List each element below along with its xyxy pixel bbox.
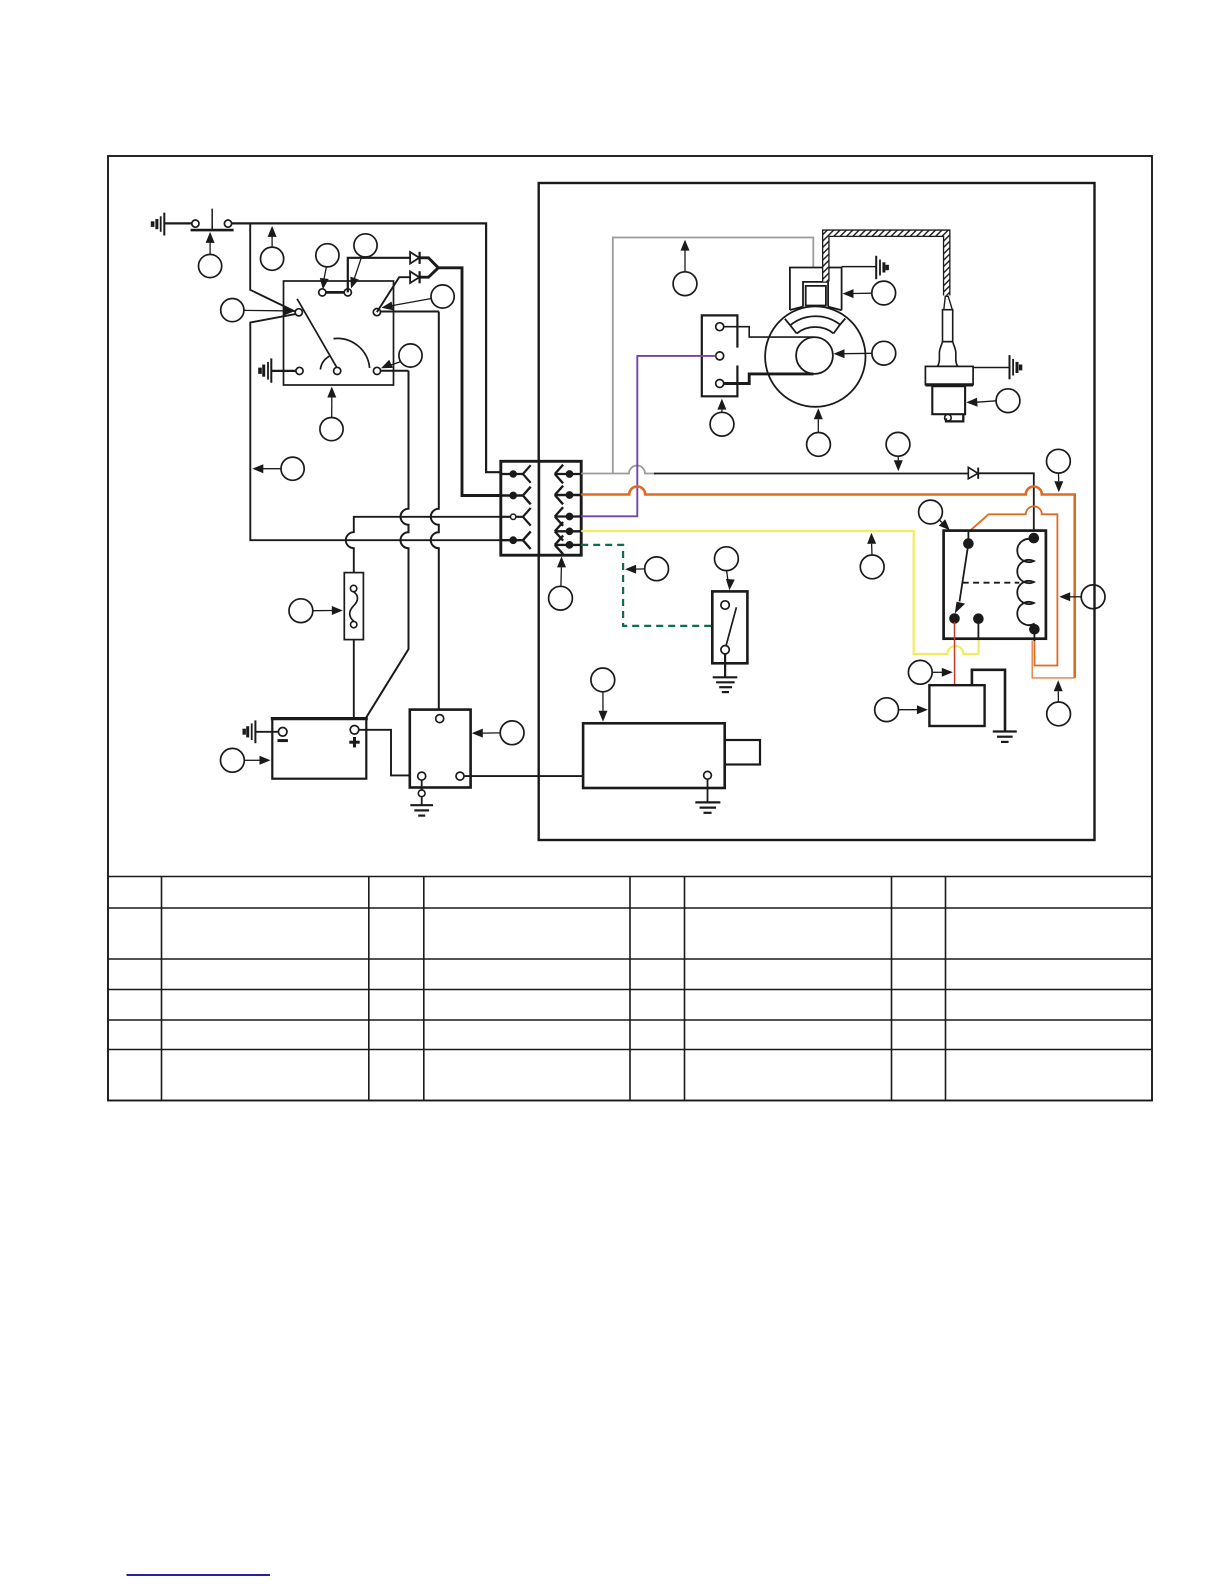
callout 24 (diode line, arrow down) — [886, 432, 910, 471]
coil ground wire — [842, 266, 877, 268]
wire orange thin tail to relay coil bottom — [1032, 641, 1075, 678]
wire top rail from brake switch to x=486 — [232, 223, 501, 472]
callout 8 (ignition terminal bottom-center) — [320, 387, 343, 441]
spark plug wire (high tension, hatched) — [826, 233, 947, 295]
relay terminals (dots) — [949, 533, 1039, 635]
callout 25 (orange wire top, arrow down) — [1047, 449, 1071, 492]
spark plug P1 — [925, 296, 973, 421]
wire ignition terminal TR up to diode D1 — [348, 258, 410, 293]
relay K1 box — [944, 531, 1046, 639]
battery B1 — [271, 719, 368, 779]
3-pin stator connector J2 — [702, 315, 738, 396]
callout 18 (battery, arrow right) — [221, 748, 271, 772]
wire ignition terminal BR down to battery positive (vertical x=408.5) — [366, 371, 409, 718]
callout 29 (red wire, arrow right) — [908, 660, 952, 684]
connector divider (harness split) — [538, 461, 541, 555]
hour meter HM — [929, 685, 984, 726]
callout 3 (ignition terminal top-left) — [316, 244, 339, 290]
connector right pin 5 — [555, 536, 581, 555]
wire black: gray line continuing to diode D3 — [654, 473, 968, 475]
connector left pin 4 — [501, 531, 531, 549]
relay coil — [1017, 539, 1034, 629]
callout 7 (ignition terminal bottom-right) — [381, 344, 422, 368]
wire gray: connector pin R1 to ignition coil and to relay diode line — [581, 466, 656, 474]
engine compartment inner box — [539, 183, 1095, 840]
ground G4 (spark plug) — [1010, 355, 1021, 379]
callout 16 (flywheel hub, arrow left) — [834, 341, 896, 365]
callout 20 (starter, arrow down) — [591, 668, 615, 722]
callout 19 (solenoid, arrow left) — [472, 721, 524, 745]
callout 6 (ignition terminal right) — [382, 285, 455, 310]
callout 23 (yellow wire, arrow up) — [860, 533, 884, 579]
starter ground stub — [707, 779, 709, 802]
ground G7 (starter, earth style) — [695, 802, 720, 812]
connector right pin 3 — [555, 507, 581, 526]
callout 28 (relay right, arrow left at orange) — [1059, 585, 1105, 609]
wire ground G1 to brake switch — [164, 222, 192, 224]
connector left pin 3 — [501, 508, 531, 526]
wire battery plus to connector pin L3 (via fuse) — [346, 517, 501, 718]
callout 30 (hour meter, arrow right) — [875, 698, 928, 722]
wire purple: connector pin R3 to stator connector — [581, 356, 716, 516]
ignition coil / armature U1 — [790, 268, 842, 311]
starter solenoid SOL — [410, 710, 471, 788]
battery negative ground wire — [255, 731, 278, 733]
connector right pin 4 — [555, 522, 581, 541]
connector right pin 1 — [555, 465, 581, 484]
3-pin connector terminals — [716, 323, 724, 388]
ignition switch box S2 — [284, 281, 394, 385]
battery plus sign — [349, 737, 359, 747]
callout 2 (top rail wire) — [261, 226, 284, 270]
solenoid terminals — [418, 715, 464, 781]
ground G3 (ignition coil) — [876, 256, 887, 279]
callout 13 (ignition coil) — [843, 281, 896, 305]
connector block J1 — [501, 461, 581, 555]
wire ignition terminal BR to solenoid (vertical x=439) — [381, 312, 439, 713]
solenoid ground stub — [421, 780, 423, 805]
starter motor M1 — [583, 723, 760, 788]
spark plug ground wire — [973, 367, 1009, 369]
diode D3 (on relay coil feed line) — [968, 467, 978, 479]
ground G8 (seat switch, earth style) — [713, 677, 738, 692]
ground G2 wire (ignition switch) — [271, 370, 296, 372]
seat switch ground stub — [724, 654, 726, 677]
connector left pin 1 — [501, 465, 531, 483]
callout 12 (gray wire, arrow up) — [673, 240, 697, 296]
callout 5 (ignition terminal left) — [221, 299, 295, 322]
seat switch S3 — [712, 591, 747, 663]
callout 21 (green wire, arrow left) — [625, 557, 668, 581]
relay switch blade with arrow — [955, 531, 969, 614]
callout 9 (fuse) — [289, 599, 343, 623]
callout 11 (connector) — [549, 556, 573, 610]
diode D2 — [410, 271, 420, 283]
legend table — [108, 877, 1152, 1101]
battery terminals — [278, 726, 358, 737]
ground G1 (chassis, left of brake interlock switch) — [153, 213, 165, 236]
fuse F1 — [344, 573, 363, 640]
hour meter ground wire — [972, 670, 1005, 732]
wire green dashed: connector pin R5 to seat switch — [581, 545, 712, 626]
battery minus sign — [278, 739, 288, 742]
callout 4 (ignition terminal top-right) — [350, 234, 377, 289]
connector left pin 2 — [501, 487, 531, 505]
wire solenoid to starter — [464, 775, 583, 777]
callout 22 (seat switch, arrow down) — [715, 547, 739, 590]
callout 17 (spark plug, arrow left) — [966, 389, 1020, 413]
ground G9 (hour meter, earth style) — [993, 732, 1017, 742]
ignition switch internals — [297, 292, 370, 370]
callout 1 (brake switch) — [199, 232, 222, 278]
relay dashed actuator line — [963, 582, 1020, 584]
stator winding wires to 3-pin connector — [720, 327, 814, 337]
outer page border — [108, 156, 1152, 1101]
callout 27 (relay, arrow down-right at corner) — [919, 500, 950, 530]
seat switch blade — [726, 607, 736, 645]
flywheel magnet segment — [785, 316, 845, 333]
wire diode merge to connector pin L2 — [420, 258, 501, 496]
ground G6 (solenoid, earth style) — [410, 805, 433, 815]
wire tap from top rail down to ignition switch terminal B — [250, 223, 295, 311]
wire diode D3 to relay coil top — [978, 473, 1034, 538]
ignition switch terminals — [295, 289, 380, 375]
diode D1 — [410, 252, 420, 264]
wire yellow: connector pin R4 to relay — [581, 531, 978, 654]
wire red: relay to hour meter — [954, 622, 956, 685]
wire orange inner loop: relay coil bottom to relay common — [971, 506, 1058, 665]
wire orange: connector pin R2 to relay coil bottom (outer run) — [581, 487, 1074, 678]
callout 15 (flywheel, arrow up at bottom) — [807, 408, 831, 456]
relay bottom-mid stub (black) — [977, 619, 979, 639]
ground G5 (battery negative) — [244, 720, 255, 743]
starter ground terminal — [704, 771, 712, 779]
connector right pin 2 — [555, 486, 581, 505]
callout 14 (3-pin connector, arrow up) — [710, 399, 734, 437]
flywheel W1 — [765, 306, 865, 406]
relay coil bottom stub — [1033, 629, 1035, 641]
callout 10 (wire x=250, pointing left) — [252, 457, 304, 480]
flywheel hub magneto — [796, 337, 833, 374]
ground G2 (ignition switch) — [260, 358, 271, 382]
brake interlock switch S1 — [191, 209, 234, 231]
footer blue line — [127, 1574, 271, 1576]
wire from ignition terminal B down to connector pin L4 — [250, 314, 500, 540]
callout 26 (orange wire bottom, arrow up) — [1047, 680, 1071, 726]
seat switch terminals — [721, 601, 729, 654]
wire ignition terminal MR up to diode D2 — [377, 277, 410, 312]
wire battery plus to solenoid — [359, 730, 410, 776]
yellow stub up to relay bottom-mid terminal — [977, 639, 979, 654]
